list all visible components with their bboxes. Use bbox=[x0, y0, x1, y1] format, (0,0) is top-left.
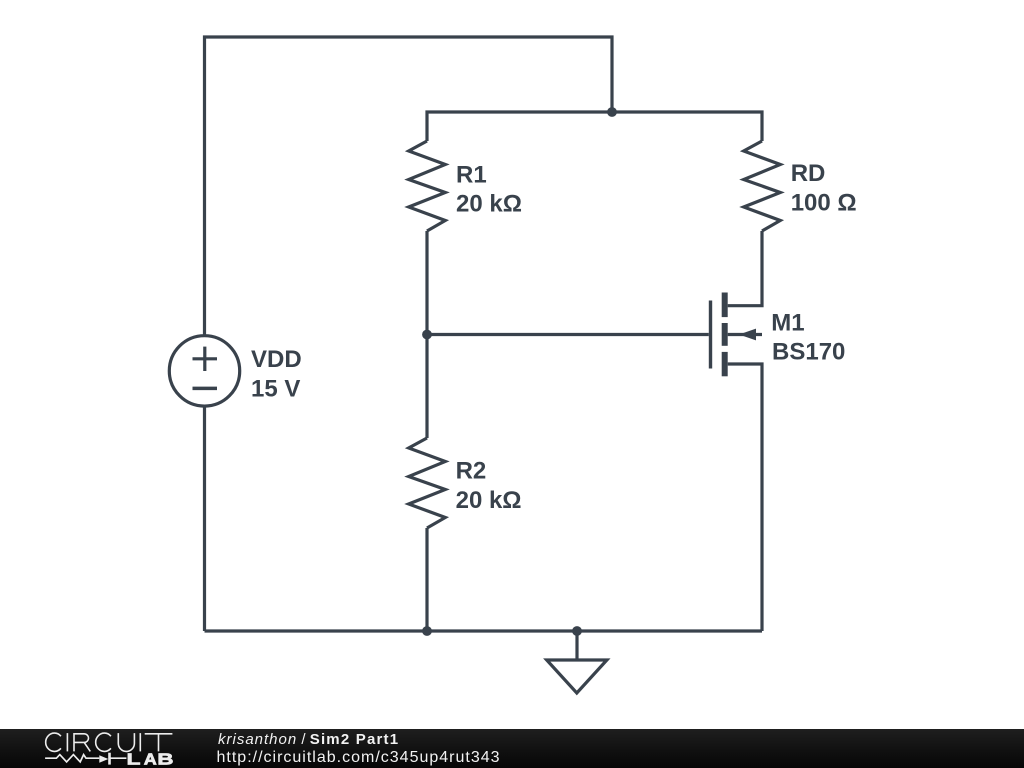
wire: R1 bottom to gate node bbox=[425, 231, 428, 335]
transistor M1 body wire with arrow bbox=[728, 333, 762, 336]
logo letter I bbox=[139, 733, 141, 751]
wire: source to bottom rail bbox=[728, 364, 762, 631]
svg-text:100 Ω: 100 Ω bbox=[791, 189, 857, 216]
logo letter L bbox=[128, 754, 140, 765]
svg-text:R2: R2 bbox=[456, 458, 487, 485]
resistor RD bbox=[744, 141, 781, 231]
footer bar bbox=[0, 729, 1024, 768]
node: bottom rail R2 junction bbox=[422, 626, 432, 636]
logo diode bbox=[99, 755, 108, 763]
svg-text:20 kΩ: 20 kΩ bbox=[456, 487, 522, 514]
ground symbol bbox=[547, 660, 607, 693]
logo resistor bbox=[45, 755, 99, 762]
voltage source V1 circle bbox=[169, 336, 239, 406]
footer url bbox=[217, 749, 501, 767]
wire: second rail y=112 bbox=[427, 112, 762, 141]
svg-text:15 V: 15 V bbox=[251, 376, 300, 403]
wire: VDD bottom to bottom rail bbox=[203, 407, 206, 631]
logo letter R bbox=[74, 734, 90, 752]
wire: gate wire from gate node to MOSFET gate bbox=[427, 333, 709, 336]
transistor M1 gate bar bbox=[709, 301, 712, 369]
logo letter C bbox=[96, 733, 111, 751]
node: top rail junction bbox=[607, 107, 617, 117]
node: ground junction bbox=[572, 626, 582, 636]
CircuitLab logo bbox=[0, 729, 200, 768]
wire: gate node to R2 top bbox=[425, 335, 428, 439]
transistor M1 channel bottom bar bbox=[722, 352, 728, 376]
resistor R2 bbox=[409, 438, 446, 528]
footer title bbox=[218, 731, 399, 748]
svg-text:VDD: VDD bbox=[251, 346, 302, 373]
wire: RD bottom to drain bbox=[728, 231, 762, 306]
svg-text:20 kΩ: 20 kΩ bbox=[456, 191, 522, 218]
voltage source plus sign bbox=[193, 357, 218, 360]
logo letter T bbox=[145, 734, 173, 752]
voltage source minus sign bbox=[193, 387, 218, 391]
resistor R1 bbox=[409, 141, 446, 231]
logo letter I bbox=[66, 733, 68, 751]
svg-text:R1: R1 bbox=[456, 161, 487, 188]
transistor M1 channel top bar bbox=[722, 293, 728, 318]
logo letter B bbox=[159, 754, 173, 765]
logo letter A bbox=[144, 754, 156, 765]
svg-text:M1: M1 bbox=[771, 309, 804, 336]
wire: VDD top to top rail to node bbox=[205, 37, 613, 336]
wire: bottom rail bbox=[205, 629, 763, 632]
wire: ground stub bbox=[575, 631, 578, 660]
logo letter U bbox=[118, 733, 134, 751]
logo letter C bbox=[46, 733, 61, 751]
transistor M1 arrow bbox=[739, 329, 756, 341]
svg-text:BS170: BS170 bbox=[772, 339, 845, 366]
wire: R2 bottom to bottom rail bbox=[425, 528, 428, 631]
svg-text:RD: RD bbox=[791, 160, 826, 187]
transistor M1 channel middle bar bbox=[722, 323, 728, 346]
node: gate junction bbox=[422, 330, 432, 340]
